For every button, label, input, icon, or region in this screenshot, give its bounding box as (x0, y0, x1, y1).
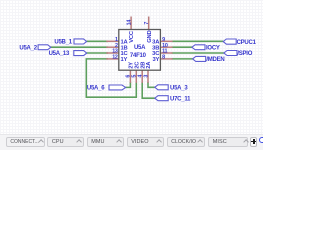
svg-text:/SPIO: /SPIO (237, 51, 252, 57)
svg-text:/MDEN: /MDEN (206, 57, 224, 63)
svg-text:U5B_1: U5B_1 (54, 39, 72, 45)
svg-text:U5A_6: U5A_6 (87, 86, 105, 92)
svg-text:7: 7 (144, 22, 150, 25)
svg-text:GND: GND (147, 31, 153, 43)
svg-text:12: 12 (112, 55, 118, 61)
svg-text:CPUC1: CPUC1 (237, 40, 257, 46)
svg-text:U5A: U5A (134, 45, 146, 51)
svg-text:U5A_13: U5A_13 (49, 51, 70, 57)
svg-text:U5A_2: U5A_2 (19, 45, 37, 51)
svg-text:VCC: VCC (129, 30, 135, 43)
svg-text:1Y: 1Y (121, 57, 128, 63)
svg-text:IOCY: IOCY (206, 45, 220, 51)
svg-text:74F10: 74F10 (130, 53, 147, 59)
svg-text:3: 3 (143, 75, 149, 78)
svg-text:3Y: 3Y (152, 57, 159, 63)
svg-text:U5A_3: U5A_3 (170, 86, 188, 92)
svg-text:U7C_11: U7C_11 (170, 96, 191, 102)
svg-text:14: 14 (127, 20, 133, 26)
svg-text:2A: 2A (146, 61, 152, 69)
svg-text:8: 8 (162, 55, 165, 61)
